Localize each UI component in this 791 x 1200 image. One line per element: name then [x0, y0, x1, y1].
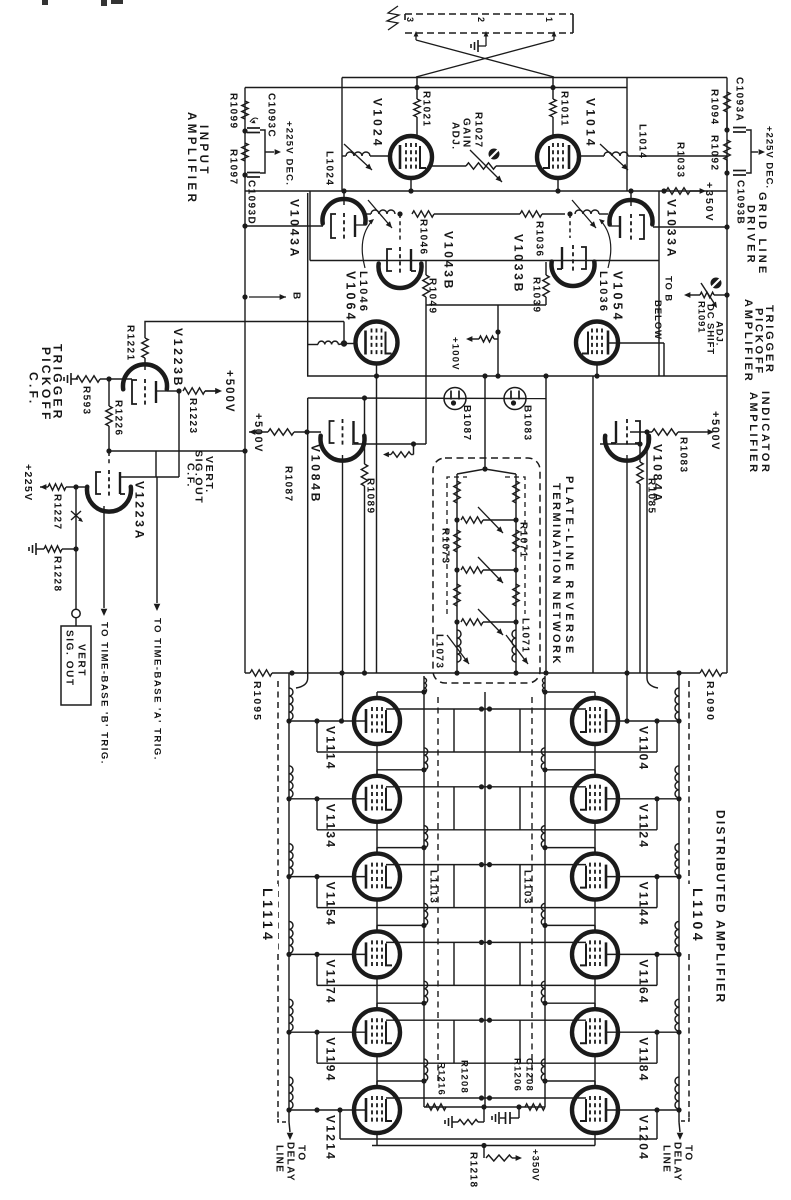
tube V1184	[572, 1009, 651, 1083]
wire right cathode drop	[658, 191, 660, 376]
svg-text:GAIN: GAIN	[460, 118, 471, 149]
wire left feed	[244, 88, 246, 674]
inductor L1113 section	[421, 748, 427, 773]
node	[304, 429, 309, 434]
wire to bus	[495, 339, 500, 379]
wire to sig out box	[75, 618, 77, 626]
inductor left delay coil	[286, 688, 293, 724]
ground at pin 2	[471, 40, 486, 52]
node	[289, 670, 294, 675]
svg-text:+500V: +500V	[223, 370, 235, 414]
dashed delay line right	[688, 681, 690, 1118]
node	[624, 670, 629, 675]
svg-text:V1204: V1204	[637, 1115, 651, 1161]
resistor R1227	[48, 484, 76, 531]
tube V1054	[576, 322, 618, 364]
svg-text:V1174: V1174	[324, 959, 338, 1005]
wire R1221 feed	[145, 322, 344, 342]
resistor R1011	[550, 78, 570, 137]
svg-text:R1033: R1033	[674, 142, 685, 178]
inductor L1046	[365, 200, 395, 228]
wire to A trig	[156, 477, 158, 603]
wire cathode bus	[317, 1032, 657, 1063]
resistor R1071b	[513, 530, 519, 552]
svg-text:R1090: R1090	[704, 681, 716, 722]
arrow +500V right	[706, 411, 721, 451]
svg-text:R1036: R1036	[533, 221, 544, 257]
wire to terminal	[75, 549, 77, 609]
svg-text:C1093A: C1093A	[733, 77, 744, 122]
label L1104	[681, 884, 706, 950]
resistor R1228	[44, 546, 76, 593]
label V1054	[611, 271, 625, 323]
terminal	[72, 609, 80, 617]
wire bulb row	[308, 397, 546, 400]
tube V1223B	[123, 328, 185, 406]
arrow +225V DEC.	[275, 121, 295, 186]
svg-text:V1033A: V1033A	[665, 199, 679, 259]
dashed plate line left	[437, 697, 439, 1083]
ground cluster left	[445, 1107, 484, 1128]
resistor R1099	[227, 93, 248, 129]
wire V1124 plate	[545, 770, 595, 776]
wire screen drop left	[453, 787, 455, 830]
wire V1024 anode	[410, 178, 412, 191]
inductor L1113 section	[421, 826, 427, 851]
resistor R1071a	[513, 481, 519, 503]
wire second top bus	[245, 85, 627, 90]
dashed plate line right	[531, 697, 533, 1083]
tube V1164	[572, 931, 651, 1005]
svg-text:V1084B: V1084B	[309, 444, 323, 504]
svg-text:V1104: V1104	[637, 726, 651, 772]
svg-text:R1218: R1218	[467, 1152, 478, 1188]
resistor R1039	[530, 262, 549, 313]
resistor R1094	[708, 89, 730, 130]
potentiometer R1027 GAIN ADJ	[432, 149, 537, 183]
svg-text:B1087: B1087	[461, 405, 472, 441]
inductor L1014	[579, 124, 727, 170]
node	[73, 484, 78, 489]
screwdriver R1091	[711, 278, 722, 289]
wire V1214 grid	[289, 1107, 365, 1112]
svg-text:+225V DEC.: +225V DEC.	[764, 126, 775, 189]
node	[676, 670, 681, 675]
label TRIGGER PICKOFF C.F.	[27, 344, 65, 423]
capacitor C1093D	[245, 173, 260, 226]
svg-text:TO TIME-BASE 'B' TRIG.: TO TIME-BASE 'B' TRIG.	[99, 622, 110, 765]
resistor R1226	[106, 379, 124, 451]
node	[724, 170, 729, 175]
inductor L1103 section	[541, 981, 547, 1006]
neon B1083	[504, 388, 532, 442]
dashed hook right	[681, 1118, 689, 1121]
svg-text:V1024: V1024	[371, 98, 385, 149]
crystal symbol	[71, 511, 83, 522]
label VERT. SIG.OUT C.F.	[185, 450, 216, 504]
svg-text:C1208: C1208	[524, 1058, 535, 1092]
svg-text:R1046: R1046	[417, 219, 428, 255]
node	[644, 429, 649, 434]
label R1091 DC SHIFT ADJ	[696, 301, 725, 355]
wire V1194 grid	[289, 1030, 365, 1035]
tube V1214	[324, 1087, 400, 1161]
rung 3	[454, 609, 518, 635]
wire V1144 plate	[545, 848, 595, 854]
svg-text:1: 1	[544, 17, 554, 22]
inductor right delay coil	[675, 999, 682, 1035]
wire screen drop right	[519, 709, 521, 752]
wire bottom bus	[372, 1145, 595, 1147]
label V1064	[344, 271, 358, 323]
svg-text:L1046: L1046	[357, 271, 369, 313]
wire to B trig	[103, 506, 105, 608]
svg-text:R1227: R1227	[51, 494, 62, 530]
svg-text:L1024: L1024	[323, 151, 334, 186]
resistor R1085	[637, 444, 657, 673]
inductor left delay coil	[286, 844, 293, 880]
node B	[242, 292, 301, 300]
wire V1104 grid	[607, 718, 679, 723]
svg-text:L1073: L1073	[433, 634, 444, 669]
wire screen drop right	[519, 942, 521, 985]
wire V1194 plate	[377, 1003, 424, 1009]
inductor L1113 section	[421, 1059, 427, 1084]
svg-text:R1083: R1083	[677, 437, 688, 473]
wire V1144 grid	[607, 874, 679, 879]
wire to +225V	[76, 486, 88, 488]
resistor R1087	[268, 429, 321, 503]
svg-text:R1094: R1094	[708, 89, 719, 125]
svg-text:ADJ.: ADJ.	[714, 321, 725, 346]
svg-text:R1011: R1011	[558, 91, 569, 127]
tube V1064	[356, 322, 398, 364]
wire screen drop left	[453, 709, 455, 752]
wire screen drop right	[519, 1020, 521, 1063]
tube V1154	[324, 854, 400, 928]
label TO DELAY LINE right	[660, 1142, 693, 1182]
tube V1033B	[512, 234, 595, 294]
svg-text:+225V DEC.: +225V DEC.	[284, 121, 295, 186]
wire V1104 plate	[545, 692, 595, 698]
node	[481, 1143, 486, 1148]
svg-text:R1049: R1049	[426, 278, 437, 314]
arrow +225V	[22, 464, 48, 502]
potentiometer R1091	[684, 283, 727, 308]
rung 2	[454, 557, 518, 583]
label R1071	[517, 522, 528, 558]
inductor right delay coil	[675, 766, 682, 802]
inductor L1071	[506, 618, 530, 664]
wire screen bus	[386, 1018, 586, 1023]
dashed inner right	[505, 477, 525, 614]
wire grid jog	[109, 448, 248, 477]
svg-text:R1095: R1095	[251, 681, 263, 722]
input connector dashed box	[405, 14, 573, 33]
svg-text:GRID LINE: GRID LINE	[756, 192, 768, 276]
resistor R1221	[124, 325, 148, 370]
label C1208	[524, 1058, 535, 1092]
svg-text:R1021: R1021	[420, 91, 431, 127]
wire screen bus	[386, 862, 586, 867]
node	[624, 718, 629, 723]
inductor right delay coil	[675, 921, 682, 957]
inductor L1103 section	[541, 903, 547, 928]
inductor right delay coil	[675, 688, 682, 724]
wire V1164 column	[594, 977, 596, 1009]
rung 1	[454, 507, 518, 533]
svg-text:V1124: V1124	[637, 804, 651, 850]
wire V1174 column	[376, 977, 378, 1009]
svg-text:V1194: V1194	[324, 1037, 338, 1083]
label DISTRIBUTED AMPLIFIER	[714, 810, 728, 1004]
wire main bus	[245, 672, 700, 674]
svg-text:DELAY: DELAY	[284, 1142, 295, 1182]
capacitor C1093C	[247, 93, 276, 138]
svg-text:R593: R593	[80, 386, 91, 416]
inductor L1036	[572, 200, 608, 228]
resistor R1073c	[454, 584, 460, 606]
svg-text:R1206: R1206	[512, 1058, 523, 1092]
svg-text:+350V: +350V	[530, 1149, 541, 1182]
resistor R1216	[426, 1062, 447, 1110]
svg-text:L1104: L1104	[690, 888, 706, 944]
node	[73, 546, 78, 551]
resistor R1046	[412, 211, 520, 256]
wire V1033A grid	[653, 224, 730, 229]
inductor L1073	[433, 630, 469, 669]
wire V1223A cathode row	[120, 476, 179, 478]
wire V1033B grid drop	[569, 214, 571, 238]
resistor R593	[76, 376, 132, 416]
svg-text:+500V: +500V	[709, 411, 721, 451]
wire V1124 grid	[607, 796, 679, 801]
wire cathode row	[352, 441, 426, 446]
wire screen bus	[386, 1095, 586, 1100]
wire row6 cathode loop	[337, 1107, 657, 1139]
wire cathode bus	[317, 877, 657, 908]
wire L1103 column	[544, 676, 546, 1107]
svg-text:LINE: LINE	[273, 1145, 284, 1173]
wire to L1064 coil	[308, 344, 318, 346]
wire cathode bus	[317, 954, 657, 985]
dashed delay line left	[277, 681, 279, 1119]
node	[339, 718, 344, 723]
svg-text:LINE: LINE	[660, 1145, 671, 1173]
wire center drop	[482, 373, 487, 469]
svg-text:R1073: R1073	[439, 528, 450, 564]
svg-text:R1089: R1089	[364, 478, 375, 514]
inductor L1024	[342, 144, 390, 170]
wire screen drop right	[519, 865, 521, 908]
tube V1024	[371, 98, 432, 178]
svg-text:C.F.: C.F.	[185, 463, 197, 488]
svg-text:TO: TO	[295, 1145, 306, 1162]
node	[176, 388, 181, 393]
wire decoupling branch	[260, 130, 274, 173]
wire top bus	[342, 77, 727, 79]
pin 3	[405, 17, 419, 40]
svg-text:V1223A: V1223A	[133, 481, 147, 541]
node	[106, 448, 111, 453]
wire left mid drop	[307, 193, 309, 678]
tube V1144	[572, 854, 651, 928]
svg-text:TO TIME-BASE 'A' TRIG.: TO TIME-BASE 'A' TRIG.	[152, 618, 163, 761]
tube V1134	[324, 776, 400, 850]
tube V1223A	[87, 470, 147, 541]
wire right delay feed	[647, 432, 658, 688]
svg-text:L1036: L1036	[597, 271, 609, 313]
svg-text:SIG. OUT: SIG. OUT	[63, 630, 74, 687]
tube V1204	[572, 1087, 651, 1161]
svg-text:R1087: R1087	[282, 466, 293, 502]
potentiometer +100V	[450, 336, 498, 371]
resistor R1083	[630, 429, 706, 474]
node	[242, 128, 247, 133]
wire V1033A grid riser	[628, 188, 633, 206]
wire tube bottoms	[377, 1133, 595, 1146]
crossover wires	[416, 40, 554, 77]
wire screen bus	[386, 706, 586, 711]
svg-text:AMPLIFIER: AMPLIFIER	[742, 299, 754, 383]
caption fragment	[42, 0, 123, 6]
label INPUT AMPLIFIER	[185, 112, 209, 205]
pin 1	[544, 17, 557, 40]
wire screen bus	[386, 940, 586, 945]
wire cathode bus	[317, 721, 657, 752]
inductor L1113 section	[421, 903, 427, 928]
wire V1164 grid	[607, 952, 679, 957]
svg-text:C1093B: C1093B	[734, 180, 745, 225]
wire V1184 grid	[607, 1030, 679, 1035]
resistor R1036	[520, 211, 565, 258]
svg-text:V1184: V1184	[637, 1037, 651, 1083]
svg-text:R1221: R1221	[124, 325, 135, 361]
svg-text:V1043A: V1043A	[288, 199, 302, 259]
wire V1204 grid	[607, 1107, 679, 1112]
wire mid bus	[307, 375, 727, 377]
svg-text:R1216: R1216	[436, 1062, 447, 1096]
svg-text:ADJ.: ADJ.	[449, 122, 460, 150]
wire V1223B cathode	[167, 390, 179, 392]
wire screen drop left	[453, 942, 455, 985]
wire V1144 column	[594, 900, 596, 932]
ground R593	[64, 373, 78, 385]
svg-text:R1226: R1226	[112, 400, 123, 436]
node	[408, 188, 413, 193]
svg-text:L1103: L1103	[521, 870, 532, 905]
svg-text:+100V: +100V	[450, 337, 461, 371]
svg-text:L1113: L1113	[427, 870, 438, 904]
svg-text:TERMINATION NETWORK: TERMINATION NETWORK	[550, 483, 562, 666]
node	[724, 127, 729, 132]
inductor L1113 section	[421, 981, 427, 1006]
wire V1184 column	[594, 1055, 596, 1087]
svg-text:V1134: V1134	[324, 804, 338, 850]
resistor R1049	[423, 260, 438, 314]
wire V1134 plate	[377, 770, 424, 776]
resistor R1071c	[513, 584, 519, 606]
svg-text:V1164: V1164	[637, 959, 651, 1005]
arrow TO TIME-BASE B TRIG	[99, 609, 110, 765]
svg-text:AMPLIFIER: AMPLIFIER	[747, 392, 759, 475]
label L1024	[323, 151, 334, 186]
node	[339, 670, 344, 675]
tube V1084A	[605, 419, 665, 504]
arrow to L1036	[599, 219, 611, 268]
svg-text:L1014: L1014	[636, 124, 647, 159]
arrow +500V left	[249, 413, 268, 453]
wire decoupling branch right	[746, 130, 758, 173]
dashed termination box	[433, 458, 540, 683]
label R1027 GAIN ADJ	[449, 112, 483, 150]
inductor right delay coil	[675, 1077, 682, 1113]
capacitor C1093B	[733, 171, 746, 226]
svg-text:B: B	[290, 292, 301, 300]
wire V1104 column	[594, 744, 596, 776]
pin 2	[476, 17, 489, 40]
wire V1164 plate	[545, 925, 595, 931]
svg-text:C1093D: C1093D	[245, 180, 256, 225]
svg-text:V1054: V1054	[611, 271, 625, 323]
wire screen row	[426, 304, 546, 306]
node	[454, 670, 459, 675]
wire right cathode row	[600, 441, 643, 446]
node	[242, 172, 247, 177]
ground R1228	[29, 543, 44, 555]
wire V1114 grid	[289, 718, 365, 723]
coax squiggle	[387, 6, 399, 30]
box VERT SIG. OUT	[61, 626, 91, 705]
svg-text:2: 2	[476, 17, 486, 22]
wire amplifier box right edge	[626, 78, 628, 722]
capacitor C1093A	[733, 77, 746, 132]
arrow TO TIME-BASE A TRIG	[152, 604, 163, 761]
tube V1043A	[288, 199, 366, 259]
svg-text:R1071: R1071	[517, 522, 528, 558]
svg-text:R1208: R1208	[459, 1060, 470, 1094]
wire V1014 anode	[557, 178, 559, 191]
wire V1134 column	[376, 822, 378, 854]
wire center plate line	[484, 692, 486, 1107]
resistor R1033	[666, 142, 690, 194]
wire V1043B grid drop	[399, 214, 401, 240]
potentiometer cathode adj	[383, 444, 414, 457]
wire V1043A grid	[242, 223, 323, 228]
label TO DELAY LINE left	[273, 1142, 306, 1182]
resistor R1090	[700, 670, 727, 722]
wire V1114 column	[376, 744, 378, 776]
svg-text:+225V: +225V	[22, 464, 34, 502]
arrow to delay line left	[287, 1122, 294, 1140]
svg-text:BELOW: BELOW	[652, 300, 663, 340]
arrow +500V	[205, 370, 235, 414]
label INDICATOR AMPLIFIER	[747, 391, 771, 475]
inductor right delay coil	[675, 844, 682, 880]
resistor R1092	[708, 135, 730, 173]
inductor L1103 section	[542, 678, 547, 695]
wire V1134 grid	[289, 796, 365, 801]
label R1208	[459, 1060, 470, 1094]
wire R1071 chain	[515, 474, 517, 673]
svg-text:L1114: L1114	[260, 888, 276, 943]
svg-text:DISTRIBUTED AMPLIFIER: DISTRIBUTED AMPLIFIER	[714, 810, 728, 1004]
tube V1114	[324, 698, 400, 771]
wire left delay feed	[296, 678, 308, 688]
wire V1194 column	[376, 1055, 378, 1087]
wire V1054 anode	[593, 364, 597, 674]
wire cathode bus	[317, 799, 657, 830]
